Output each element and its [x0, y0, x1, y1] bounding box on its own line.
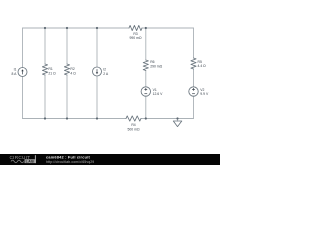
svg-text:12.6 V: 12.6 V [153, 92, 164, 96]
svg-text:500 mΩ: 500 mΩ [128, 127, 140, 131]
svg-text:4.4 Ω: 4.4 Ω [198, 64, 207, 68]
svg-text:9.9 V: 9.9 V [200, 92, 209, 96]
svg-text:http://circuitlab.com/c/65vq29: http://circuitlab.com/c/65vq29 [46, 160, 94, 164]
svg-text:4 Ω: 4 Ω [70, 71, 76, 75]
svg-text:990 mΩ: 990 mΩ [130, 36, 142, 40]
svg-text:8 A: 8 A [11, 72, 17, 76]
svg-text:cam6842 : Full circuit: cam6842 : Full circuit [46, 155, 90, 160]
svg-text:290 mΩ: 290 mΩ [150, 64, 162, 68]
svg-text:2 A: 2 A [103, 72, 109, 76]
svg-text:LAB: LAB [26, 159, 35, 163]
svg-text:21 Ω: 21 Ω [48, 71, 56, 75]
